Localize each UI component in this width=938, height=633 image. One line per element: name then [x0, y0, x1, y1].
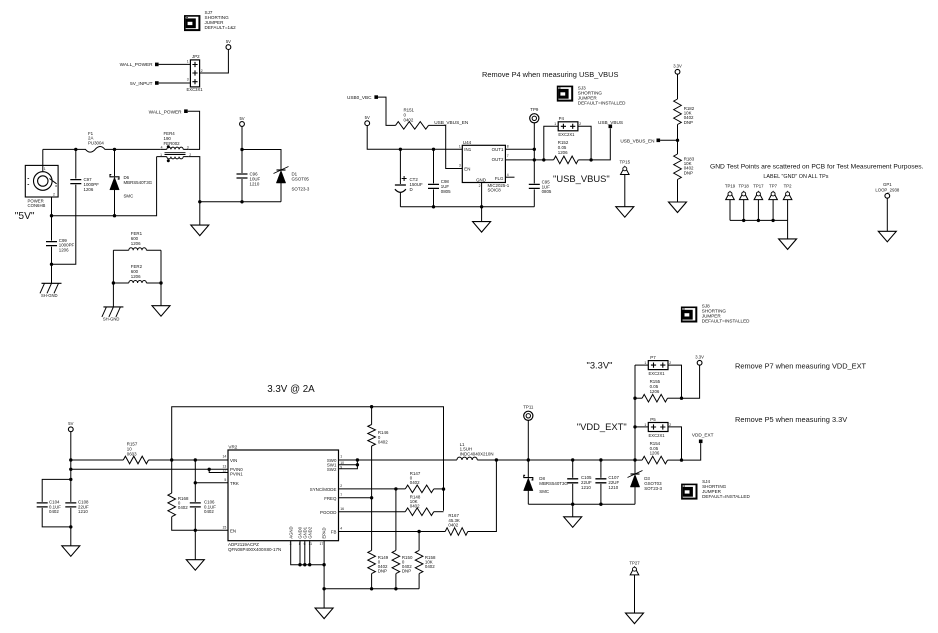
- wire C99 bottom: [51, 247, 53, 284]
- net label USB0_VBC: [347, 95, 378, 100]
- svg-text:1: 1: [554, 122, 556, 126]
- svg-text:0402: 0402: [378, 439, 388, 444]
- svg-text:15: 15: [223, 526, 227, 530]
- connector P5: [644, 417, 671, 438]
- label "5V": [15, 211, 35, 222]
- wire TP gnd bus: [730, 219, 788, 221]
- junction (C99 tap): [50, 214, 53, 217]
- capacitor C107: [595, 460, 619, 504]
- svg-text:WALL_POWER: WALL_POWER: [120, 62, 154, 67]
- svg-text:DNP: DNP: [684, 170, 693, 175]
- svg-text:CON6HB: CON6HB: [28, 203, 46, 208]
- svg-text:EXC2X1: EXC2X1: [649, 433, 666, 438]
- svg-text:4: 4: [161, 146, 163, 150]
- junction (C107 tap): [599, 458, 602, 461]
- junction (U44 gnd): [480, 205, 483, 208]
- wire C98 bottom: [433, 189, 435, 206]
- capacitor C108: [65, 479, 89, 527]
- ground (TP27): [626, 613, 644, 624]
- svg-text:1206: 1206: [650, 389, 660, 394]
- svg-text:"USB_VBUS": "USB_VBUS": [553, 173, 610, 184]
- svg-text:1: 1: [644, 423, 646, 427]
- wire PVIN0 stub: [209, 468, 228, 470]
- svg-text:1: 1: [187, 60, 189, 64]
- shorting jumper SJ8: [681, 304, 750, 324]
- label "3.3V": [587, 359, 613, 370]
- wire D3 bottom: [634, 487, 636, 504]
- wire C99 top: [51, 216, 53, 241]
- svg-text:MBRS540T3G: MBRS540T3G: [539, 481, 568, 486]
- svg-text:2: 2: [669, 361, 671, 365]
- svg-text:EN: EN: [464, 166, 470, 171]
- svg-text:P5: P5: [650, 417, 656, 422]
- connector P4: [554, 116, 581, 137]
- svg-text:D: D: [410, 187, 413, 192]
- svg-text:EXC2X1: EXC2X1: [649, 371, 666, 376]
- shorting jumper SJ7: [184, 10, 236, 31]
- svg-text:FLG: FLG: [495, 176, 504, 181]
- junction (divider mid): [676, 139, 679, 142]
- wire WALL_POWER to FER4 pin3: [188, 111, 200, 149]
- junction (P5 left): [633, 425, 636, 428]
- wire to gnd (input caps): [70, 527, 72, 546]
- svg-text:1: 1: [44, 167, 46, 171]
- note: LABEL GND: [763, 174, 828, 180]
- pin stub FLG: [505, 176, 514, 178]
- svg-text:TP11: TP11: [523, 405, 534, 410]
- wire rail1 right: [149, 459, 229, 461]
- wire D6 bottom: [114, 190, 116, 216]
- svg-text:DNP: DNP: [402, 569, 411, 574]
- svg-text:Remove P7 when measuring VDD_E: Remove P7 when measuring VDD_EXT: [735, 362, 867, 371]
- ground (TP15): [616, 207, 634, 218]
- wire R158 top: [418, 532, 420, 551]
- resistor R150: [392, 550, 413, 573]
- svg-text:0402: 0402: [178, 505, 188, 510]
- wire R154 leads: [635, 459, 682, 461]
- wire R167 to VOUT: [468, 460, 497, 532]
- net label WALL_POWER (JP2 pin1): [120, 62, 159, 67]
- svg-text:SW2: SW2: [327, 467, 337, 472]
- svg-text:LABEL "GND" ON ALL TPs: LABEL "GND" ON ALL TPs: [763, 174, 828, 180]
- junction (C98 gnd): [432, 205, 435, 208]
- junction (FER2 left): [112, 281, 115, 284]
- wire R182 to R183: [677, 125, 679, 155]
- svg-text:11: 11: [309, 542, 313, 546]
- wire GP1 to gnd: [886, 198, 888, 231]
- wire TP15 to gnd: [624, 175, 626, 207]
- resistor R152: [554, 140, 579, 164]
- svg-text:0805: 0805: [441, 189, 451, 194]
- svg-text:MBRS540T3G: MBRS540T3G: [124, 180, 153, 185]
- wire OUT2: [505, 159, 534, 161]
- wire C95 bottom: [533, 189, 535, 206]
- svg-text:P7: P7: [650, 355, 656, 360]
- test point TP2: [783, 184, 792, 221]
- junction (EPAD tie): [322, 563, 325, 566]
- svg-text:12: 12: [223, 469, 227, 473]
- junction (TP11/D8 tap): [527, 458, 530, 461]
- wire VDD_EXT pin: [682, 443, 701, 460]
- svg-text:SYNC/MODE: SYNC/MODE: [310, 487, 337, 492]
- wire VIN loop: [172, 407, 444, 511]
- wire CT2 bottom: [399, 193, 401, 207]
- test point TP19: [725, 184, 736, 221]
- wire P5 pin2: [668, 427, 681, 460]
- capacitor C99: [46, 238, 74, 253]
- capacitor CT2 (polarized): [395, 149, 423, 192]
- net name USB_VBUS_EN: [434, 120, 468, 125]
- resistor R183: [674, 154, 695, 180]
- svg-text:EXC3X1: EXC3X1: [187, 87, 204, 92]
- svg-text:PU3004: PU3004: [88, 141, 104, 146]
- wire R147 right: [434, 488, 444, 490]
- svg-text:1: 1: [459, 144, 461, 148]
- test point TP27: [629, 560, 640, 575]
- resistor R146: [368, 425, 389, 447]
- capacitor C97: [70, 177, 99, 192]
- svg-text:USB_VBUS_EN: USB_VBUS_EN: [620, 138, 654, 143]
- svg-text:SOT23-3: SOT23-3: [644, 486, 662, 491]
- ground (divider): [669, 202, 687, 213]
- ground (VR2): [315, 608, 333, 619]
- wire JP2 pin2 to 5V: [200, 49, 229, 73]
- capacitor C104: [37, 479, 71, 527]
- svg-text:USB0_VBC: USB0_VBC: [347, 95, 372, 100]
- svg-text:0402: 0402: [425, 564, 435, 569]
- svg-text:"VDD_EXT": "VDD_EXT": [577, 421, 627, 432]
- resistor R154: [642, 441, 667, 464]
- wire R149 bottom: [371, 574, 373, 589]
- junction (FER2 right): [159, 281, 162, 284]
- svg-text:1206: 1206: [84, 187, 94, 192]
- wire OUT node to R152: [534, 159, 553, 161]
- svg-text:"3.3V": "3.3V": [587, 359, 613, 370]
- svg-text:0402: 0402: [49, 509, 59, 514]
- junction (D3/VDD node): [633, 458, 636, 461]
- svg-text:1: 1: [160, 153, 162, 157]
- wire R146 to FREQ/R149: [371, 446, 373, 550]
- resistor R148: [405, 494, 434, 515]
- svg-text:GND2: GND2: [307, 526, 312, 538]
- svg-text:Remove P5 when measuring 3.3V: Remove P5 when measuring 3.3V: [735, 415, 847, 424]
- wire input return rail: [52, 157, 157, 216]
- capacitor C96: [237, 172, 261, 187]
- svg-text:3.3V @ 2A: 3.3V @ 2A: [267, 384, 315, 395]
- power port 3.3V (P7): [695, 355, 704, 366]
- svg-text:DEFAULT=INSTALLED: DEFAULT=INSTALLED: [702, 318, 750, 323]
- wire R155 leads: [635, 397, 682, 399]
- wire 5V to C96/D1: [241, 126, 243, 149]
- power port 5V (regulator): [68, 421, 73, 432]
- shorting jumper SJ4: [681, 479, 750, 499]
- wire FER left side: [112, 250, 114, 307]
- svg-text:DEFAULT=1&2: DEFAULT=1&2: [205, 25, 237, 30]
- svg-text:1206: 1206: [558, 150, 568, 155]
- junction (C105 gnd): [571, 503, 574, 506]
- junction (TP17): [757, 219, 760, 222]
- ground (TP cluster): [779, 239, 797, 250]
- power port 5V (U44): [365, 115, 370, 126]
- svg-text:DNP: DNP: [378, 569, 387, 574]
- test point TP11: [523, 405, 534, 461]
- junction (C104 return): [69, 525, 72, 528]
- ferrite bead FER2: [113, 264, 161, 283]
- svg-text:USB_VBUS_EN: USB_VBUS_EN: [434, 120, 468, 125]
- svg-text:SH-GND: SH-GND: [41, 293, 58, 298]
- svg-text:7: 7: [507, 154, 509, 158]
- junction (loop/EN tap): [170, 458, 173, 461]
- junction (R149 gnd): [370, 587, 373, 590]
- IC U44 (MIC2025-1 power switch): [459, 140, 510, 193]
- wire R150 bottom: [395, 574, 397, 589]
- junction (TRK/C106): [194, 481, 197, 484]
- label "USB_VBUS": [553, 173, 610, 184]
- wire P6 pin2 down: [51, 197, 53, 216]
- junction (R155 right): [680, 397, 683, 400]
- wire GND0 pin: [299, 541, 301, 565]
- svg-text:GSOT05: GSOT05: [292, 176, 310, 181]
- note: GND test points: [710, 164, 924, 171]
- junction (SW tie): [356, 458, 359, 461]
- junction (C97 tap): [74, 148, 77, 151]
- svg-text:2: 2: [340, 484, 342, 488]
- wire GND1 pin: [304, 541, 306, 565]
- svg-text:TP2: TP2: [784, 184, 792, 189]
- test point TP15: [620, 160, 631, 175]
- svg-text:P4: P4: [559, 116, 565, 121]
- shield ground SH-GND (FER): [102, 307, 124, 322]
- junction (C105 tap): [571, 458, 574, 461]
- svg-text:1206: 1206: [59, 248, 69, 253]
- junction (gnd bus tie): [322, 587, 325, 590]
- resistor R168: [168, 493, 189, 517]
- junction (rail1 tap): [69, 458, 72, 461]
- fuse F1: [84, 131, 110, 152]
- shorting jumper SJ3: [557, 86, 626, 106]
- wire C96/D1 top link: [242, 150, 281, 170]
- ferrite bead FER1: [113, 231, 161, 250]
- resistor R167: [445, 513, 468, 535]
- resistor R158: [415, 550, 436, 573]
- wire SW0 rail: [339, 459, 457, 461]
- wire P4 pin1 down: [544, 126, 558, 160]
- wire sense chain vertical: [634, 365, 636, 460]
- junction (FREQ tie): [370, 496, 373, 499]
- test point TP9: [530, 107, 539, 150]
- svg-text:TP7: TP7: [769, 184, 777, 189]
- wire TP27 to gnd: [634, 575, 636, 613]
- svg-text:FREQ: FREQ: [324, 496, 337, 501]
- svg-text:5V: 5V: [365, 115, 370, 120]
- wire R146 top: [371, 407, 373, 425]
- svg-text:1206: 1206: [131, 274, 141, 279]
- svg-text:3: 3: [187, 146, 189, 150]
- svg-text:SOIC8: SOIC8: [488, 188, 502, 193]
- wire WALL_POWER to JP2 pin1: [159, 63, 191, 65]
- wire FER right side: [160, 250, 162, 306]
- inductor L1: [457, 442, 494, 460]
- wire R168 to EN: [172, 517, 228, 531]
- svg-text:INDC4040X210N: INDC4040X210N: [460, 452, 494, 457]
- power port 5V (C96 branch): [239, 116, 244, 127]
- wire to 3.3V port: [682, 365, 700, 398]
- power jack P6: [25, 165, 58, 208]
- svg-text:1210: 1210: [608, 485, 618, 490]
- diode D8: [524, 460, 569, 494]
- resistor R157: [123, 442, 148, 464]
- power port 3.3V (divider): [673, 64, 682, 75]
- junction (R150 tap): [394, 487, 397, 490]
- ground (FER4): [191, 225, 209, 236]
- IC VR2 (ADP2119 regulator): [223, 445, 345, 552]
- junction (R150 gnd): [394, 587, 397, 590]
- svg-text:3.3V: 3.3V: [695, 355, 704, 360]
- svg-text:TP15: TP15: [620, 160, 631, 165]
- junction (R158 tap): [417, 530, 420, 533]
- svg-text:8: 8: [507, 144, 509, 148]
- junction (CT2 tap): [399, 148, 402, 151]
- svg-text:1: 1: [340, 455, 342, 459]
- svg-text:2: 2: [53, 193, 55, 197]
- svg-text:DEFAULT=INSTALLED: DEFAULT=INSTALLED: [702, 494, 750, 499]
- wire rail1 left: [71, 459, 124, 461]
- wire output gnd rail: [528, 503, 635, 505]
- junction (GND node after FER4): [198, 200, 201, 203]
- svg-text:0402: 0402: [204, 509, 214, 514]
- svg-text:1210: 1210: [78, 509, 88, 514]
- junction (R147 right): [442, 487, 445, 490]
- svg-text:TP19: TP19: [725, 184, 736, 189]
- title 3.3V @ 2A: [267, 384, 315, 395]
- wire OUT1-OUT2 tie: [533, 149, 535, 160]
- junction (C107 gnd): [599, 503, 602, 506]
- svg-text:TP17: TP17: [753, 184, 764, 189]
- svg-text:DNP: DNP: [684, 120, 693, 125]
- junction (C104/C108 tap): [69, 478, 72, 481]
- svg-text:1206: 1206: [131, 241, 141, 246]
- svg-text:TP27: TP27: [629, 560, 640, 565]
- junction (TP7): [771, 219, 774, 222]
- svg-text:TP18: TP18: [739, 184, 750, 189]
- svg-text:WALL_POWER: WALL_POWER: [149, 109, 183, 114]
- net label USB_VBUS_EN (divider): [620, 138, 660, 143]
- svg-text:2: 2: [579, 122, 581, 126]
- wire R150 top: [395, 489, 397, 551]
- svg-text:VDD_EXT: VDD_EXT: [692, 433, 714, 438]
- diode D6: [110, 175, 153, 199]
- wire D6 top: [114, 149, 116, 176]
- svg-text:17: 17: [320, 542, 324, 546]
- junction (R155 left): [633, 397, 636, 400]
- svg-text:IN1: IN1: [464, 147, 471, 152]
- svg-text:OUT1: OUT1: [492, 147, 504, 152]
- wire OUT1: [505, 148, 534, 150]
- junction (D6 return): [113, 214, 116, 217]
- svg-text:EPAD: EPAD: [322, 528, 327, 539]
- ground (input caps): [62, 546, 80, 557]
- svg-text:0402: 0402: [404, 117, 414, 122]
- wire output gnd stem: [572, 504, 574, 517]
- wire FB: [339, 531, 446, 533]
- wire C96 bottom: [241, 179, 243, 202]
- resistor R147: [405, 471, 434, 493]
- ground (output caps): [564, 517, 582, 528]
- svg-text:SOT23-3: SOT23-3: [292, 186, 310, 191]
- wire R183 to gnd: [677, 180, 679, 203]
- svg-text:VIN: VIN: [230, 458, 237, 463]
- connector JP2: [187, 54, 204, 92]
- test point TP17: [753, 184, 764, 221]
- diode D3 (TVS): [628, 460, 663, 491]
- loop GP1: [875, 182, 899, 198]
- svg-text:GND Test Points are scattered: GND Test Points are scattered on PCB for…: [710, 164, 924, 171]
- svg-text:2: 2: [669, 423, 671, 427]
- note: Remove P7: [735, 362, 867, 371]
- svg-text:AGND: AGND: [288, 526, 293, 538]
- capacitor C105: [567, 460, 592, 504]
- wire TRK tie: [195, 460, 228, 483]
- svg-text:FER002: FER002: [164, 141, 181, 146]
- junction (OUT2 tie): [533, 158, 536, 161]
- wire SW2: [339, 460, 358, 469]
- svg-text:5V_INPUT: 5V_INPUT: [130, 81, 153, 86]
- diode D1 (TVS): [274, 167, 310, 192]
- resistor R182: [674, 99, 695, 125]
- note: Remove P4: [482, 70, 618, 79]
- svg-text:DEFAULT=INSTALLED: DEFAULT=INSTALLED: [578, 100, 626, 105]
- junction (Y-cap node): [50, 263, 53, 266]
- svg-text:PGOOD: PGOOD: [320, 510, 336, 515]
- svg-text:0402: 0402: [410, 480, 420, 485]
- ground (C106): [186, 560, 204, 571]
- svg-text:"5V": "5V": [15, 211, 35, 222]
- note: Remove P5: [735, 415, 847, 424]
- svg-text:1210: 1210: [581, 485, 591, 490]
- svg-text:3.3V: 3.3V: [673, 64, 682, 69]
- svg-text:LOOP_2938: LOOP_2938: [875, 187, 899, 192]
- svg-text:5V: 5V: [68, 421, 73, 426]
- svg-text:1206: 1206: [650, 451, 660, 456]
- svg-text:QFN08P400X400X80-17N: QFN08P400X400X80-17N: [228, 547, 281, 552]
- svg-text:4: 4: [340, 527, 342, 531]
- wire 5V_INPUT to JP2 pin3: [159, 82, 191, 84]
- junction (TRK tap): [194, 458, 197, 461]
- wire EN tap: [660, 139, 677, 141]
- label "VDD_EXT": [577, 421, 627, 432]
- common-mode choke FER4: [157, 131, 192, 162]
- wire FER4 pin2 out: [188, 157, 200, 202]
- wire F1 to FER4 pin4: [110, 148, 161, 150]
- svg-text:1: 1: [644, 361, 646, 365]
- wire R168 top: [171, 460, 173, 493]
- ground (FER): [152, 306, 170, 317]
- wire 5V to IN rail: [367, 126, 462, 150]
- svg-text:VR2: VR2: [228, 445, 237, 450]
- wire FREQ: [339, 497, 372, 499]
- wire rail2 (PVIN): [71, 469, 228, 472]
- wire C96 top stem: [241, 150, 243, 174]
- wire FER4 gnd stem: [199, 202, 201, 225]
- wire R151 to EN: [429, 125, 463, 168]
- wire USB0_VBC to R151: [378, 97, 396, 125]
- svg-text:0402: 0402: [448, 522, 458, 527]
- shield ground SH-GND: [40, 283, 62, 298]
- svg-text:EXC2X1: EXC2X1: [558, 132, 575, 137]
- resistor R155: [642, 379, 667, 402]
- wire R152 to USB_VBUS: [578, 128, 610, 160]
- resistor R151: [396, 108, 429, 130]
